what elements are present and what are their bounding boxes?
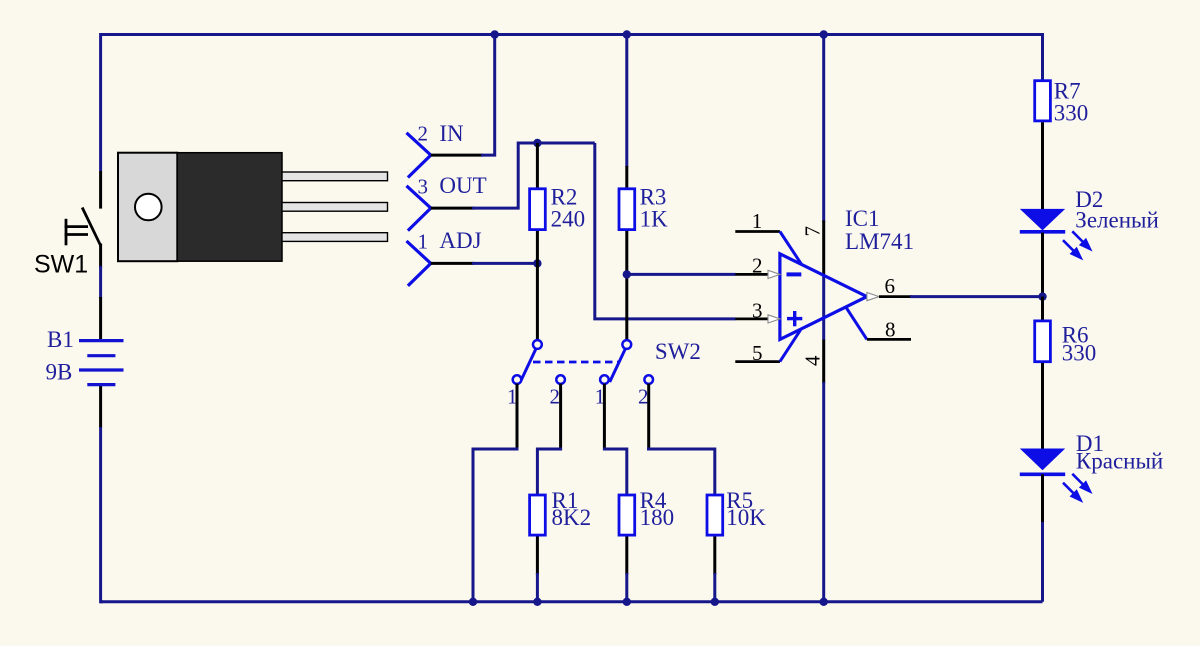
wire R3 bottom to SW2 common B [625, 231, 628, 340]
wire R2 bottom stub [536, 231, 539, 263]
LED D1 triangle [1020, 449, 1065, 471]
wire switch top stub [99, 171, 102, 209]
regulator TO-220 tab [118, 153, 177, 262]
wire R2 node to SW2 common A [536, 263, 539, 339]
svg-text:180: 180 [640, 505, 675, 530]
wire R2 top stub [536, 143, 539, 188]
wire node to R6 [1041, 297, 1044, 320]
pin chevron 1 ADJ [407, 241, 431, 286]
regulator TO-220 pin 1 lead [282, 172, 388, 181]
wire contact A1 down [516, 384, 519, 451]
op-amp IC1 triangle [780, 254, 867, 340]
resistor R4 [619, 495, 635, 535]
op-amp pin 5 lead [735, 360, 780, 363]
svg-text:1: 1 [752, 209, 763, 233]
wire IN corner to top [481, 35, 495, 156]
op-amp pin 3 lead [735, 317, 768, 320]
junction dot bottom R4 [623, 598, 631, 606]
wire R4 bottom navy [625, 573, 628, 602]
LED D1 emission arrow lower [1063, 483, 1081, 501]
wire R5 bottom navy [713, 573, 716, 602]
junction dot bottom R5 [711, 598, 719, 606]
resistor R3 [619, 189, 635, 230]
svg-text:IC1: IC1 [845, 206, 880, 231]
wire right column top [1040, 35, 1043, 81]
op-amp pin 5 diagonal [780, 330, 801, 362]
junction dot bottom A1 [469, 598, 477, 606]
wire pin 6 to LED column [910, 295, 1043, 298]
wire IN horizontal [431, 154, 483, 157]
junction dot R2 bottom [533, 259, 541, 267]
resistor R2 [530, 189, 546, 230]
LED D2 emission arrow upper [1072, 231, 1090, 249]
wire A2 jog to R1 [537, 449, 562, 494]
switch SW1 bracket [65, 219, 88, 246]
wire ADJ horizontal black [431, 262, 474, 265]
junction dot R3 node [623, 270, 631, 278]
svg-text:8K2: 8K2 [552, 505, 592, 530]
svg-text:IN: IN [439, 121, 464, 146]
svg-text:SW2: SW2 [655, 339, 701, 364]
regulator TO-220 pin 2 lead [282, 203, 388, 212]
LED D2 cathode bar [1020, 230, 1065, 234]
junction dot top R3 [623, 30, 631, 38]
wire op-amp power rail lower navy [822, 382, 825, 602]
regulator TO-220 hole [135, 194, 162, 221]
switch SW2 common contact A [533, 340, 542, 349]
wire op-amp pin 4 black segment [822, 340, 825, 384]
svg-text:2: 2 [418, 122, 429, 146]
svg-text:2: 2 [752, 254, 763, 278]
wire R3 top from rail [625, 35, 628, 168]
wire rail inside triangle [822, 275, 825, 340]
svg-text:R3: R3 [640, 184, 667, 209]
wire R3 top black stub [625, 166, 628, 189]
wire R7 to D2 [1041, 122, 1044, 209]
wire A1 jog to left drop [473, 449, 519, 602]
svg-text:B1: B1 [47, 327, 74, 352]
svg-text:LM741: LM741 [845, 229, 914, 254]
wire R1 bottom black [536, 537, 539, 576]
resistor R5 [707, 495, 723, 535]
svg-text:6: 6 [885, 274, 896, 298]
pin chevron 3 OUT [407, 186, 431, 231]
svg-text:Зеленый: Зеленый [1075, 208, 1159, 233]
op-amp pin 8 lead [867, 338, 911, 341]
switch SW2 lever A [520, 349, 536, 382]
regulator TO-220 pin 3 lead [282, 233, 388, 242]
LED D1 emission arrow upper [1072, 474, 1090, 492]
op-amp pin 1 diagonal [780, 232, 802, 265]
svg-text:7: 7 [800, 226, 824, 237]
LED D2 triangle [1020, 209, 1065, 231]
wire B2 jog to R5 [647, 449, 715, 494]
op-amp pin 6 lead black [879, 295, 912, 298]
svg-text:ADJ: ADJ [439, 228, 481, 253]
pin chevron 2 IN [407, 133, 431, 178]
junction dot output node [1038, 292, 1046, 300]
wire R6 to D1 [1041, 363, 1044, 449]
wire R1 bottom navy [536, 573, 539, 602]
wire D2 to node [1041, 233, 1044, 297]
junction dot top IN [491, 30, 499, 38]
op-amp pin 3 arrow [768, 315, 780, 323]
wire OUT horizontal black [431, 207, 474, 210]
LED D1 cathode bar [1020, 472, 1065, 476]
op-amp pin 8 diagonal [846, 307, 867, 339]
op-amp pin 1 lead [735, 230, 780, 233]
wire OUT up and over [472, 143, 595, 208]
switch SW2 common contact B [622, 340, 631, 349]
svg-text:3: 3 [752, 298, 763, 322]
wire left rail upper (battery plus to top) [101, 35, 102, 172]
svg-text:3: 3 [418, 174, 429, 198]
resistor R6 [1035, 321, 1051, 362]
svg-text:10K: 10K [726, 505, 766, 530]
wire D1 bottom black [1041, 474, 1044, 524]
switch SW1 lever [82, 208, 100, 246]
wire R4 bottom black [625, 537, 628, 576]
op-amp pin 6 arrow [867, 293, 879, 301]
svg-text:1: 1 [418, 229, 429, 253]
wire top rail [100, 33, 1043, 36]
svg-text:8: 8 [885, 318, 896, 342]
wire contact A2 down [559, 384, 562, 451]
op-amp plus symbol [787, 311, 802, 326]
wire left rail lower [101, 427, 103, 602]
op-amp minus symbol [787, 272, 802, 276]
switch SW2 lever B [610, 349, 626, 382]
svg-text:5: 5 [752, 341, 763, 365]
battery B1 [79, 341, 124, 385]
wire below switch black [99, 244, 102, 269]
LED D2 emission arrow lower [1063, 240, 1081, 258]
wire contact B2 down [647, 384, 650, 451]
junction dot top rail [820, 30, 828, 38]
regulator TO-220 body [177, 153, 282, 262]
wire ADJ horizontal navy [472, 262, 537, 265]
switch SW2 contact B1 [600, 375, 609, 384]
op-amp pin 2 lead [735, 273, 768, 276]
wire contact B1 down [603, 384, 606, 451]
op-amp pin 2 arrow [768, 270, 780, 278]
wire below switch navy [99, 266, 102, 299]
svg-text:330: 330 [1054, 100, 1089, 125]
svg-text:9B: 9B [46, 359, 73, 384]
wire B1 jog to R4 [603, 449, 627, 494]
svg-text:Красный: Красный [1076, 448, 1163, 473]
wire to op-amp plus input [595, 143, 736, 319]
wire D1 bottom navy [1041, 522, 1044, 602]
wire bottom rail [100, 600, 1043, 603]
wire op-amp power rail upper navy [822, 35, 825, 223]
svg-text:SW1: SW1 [34, 251, 88, 279]
wire to op-amp minus input [627, 273, 736, 276]
junction dot bottom rail [820, 598, 828, 606]
resistor R7 [1035, 81, 1051, 121]
switch SW2 gang dashed link [533, 361, 619, 364]
wire op-amp pin 7 black segment [822, 221, 825, 276]
svg-text:330: 330 [1062, 341, 1097, 366]
wire battery bottom stub [99, 386, 102, 428]
wire into battery top [99, 297, 102, 340]
resistor R1 [530, 495, 546, 535]
svg-text:OUT: OUT [439, 173, 486, 198]
svg-text:1K: 1K [640, 207, 669, 232]
svg-text:R2: R2 [551, 184, 578, 209]
svg-text:4: 4 [800, 355, 824, 366]
svg-text:240: 240 [551, 207, 586, 232]
junction dot bottom R1 [533, 598, 541, 606]
switch SW2 contact A1 [513, 375, 522, 384]
wire R5 bottom black [713, 537, 716, 576]
svg-text:2: 2 [550, 385, 561, 409]
switch SW2 contact B2 [644, 375, 653, 384]
svg-text:2: 2 [638, 385, 649, 409]
switch SW2 contact A2 [556, 375, 565, 384]
junction dot R2 top [533, 139, 541, 147]
